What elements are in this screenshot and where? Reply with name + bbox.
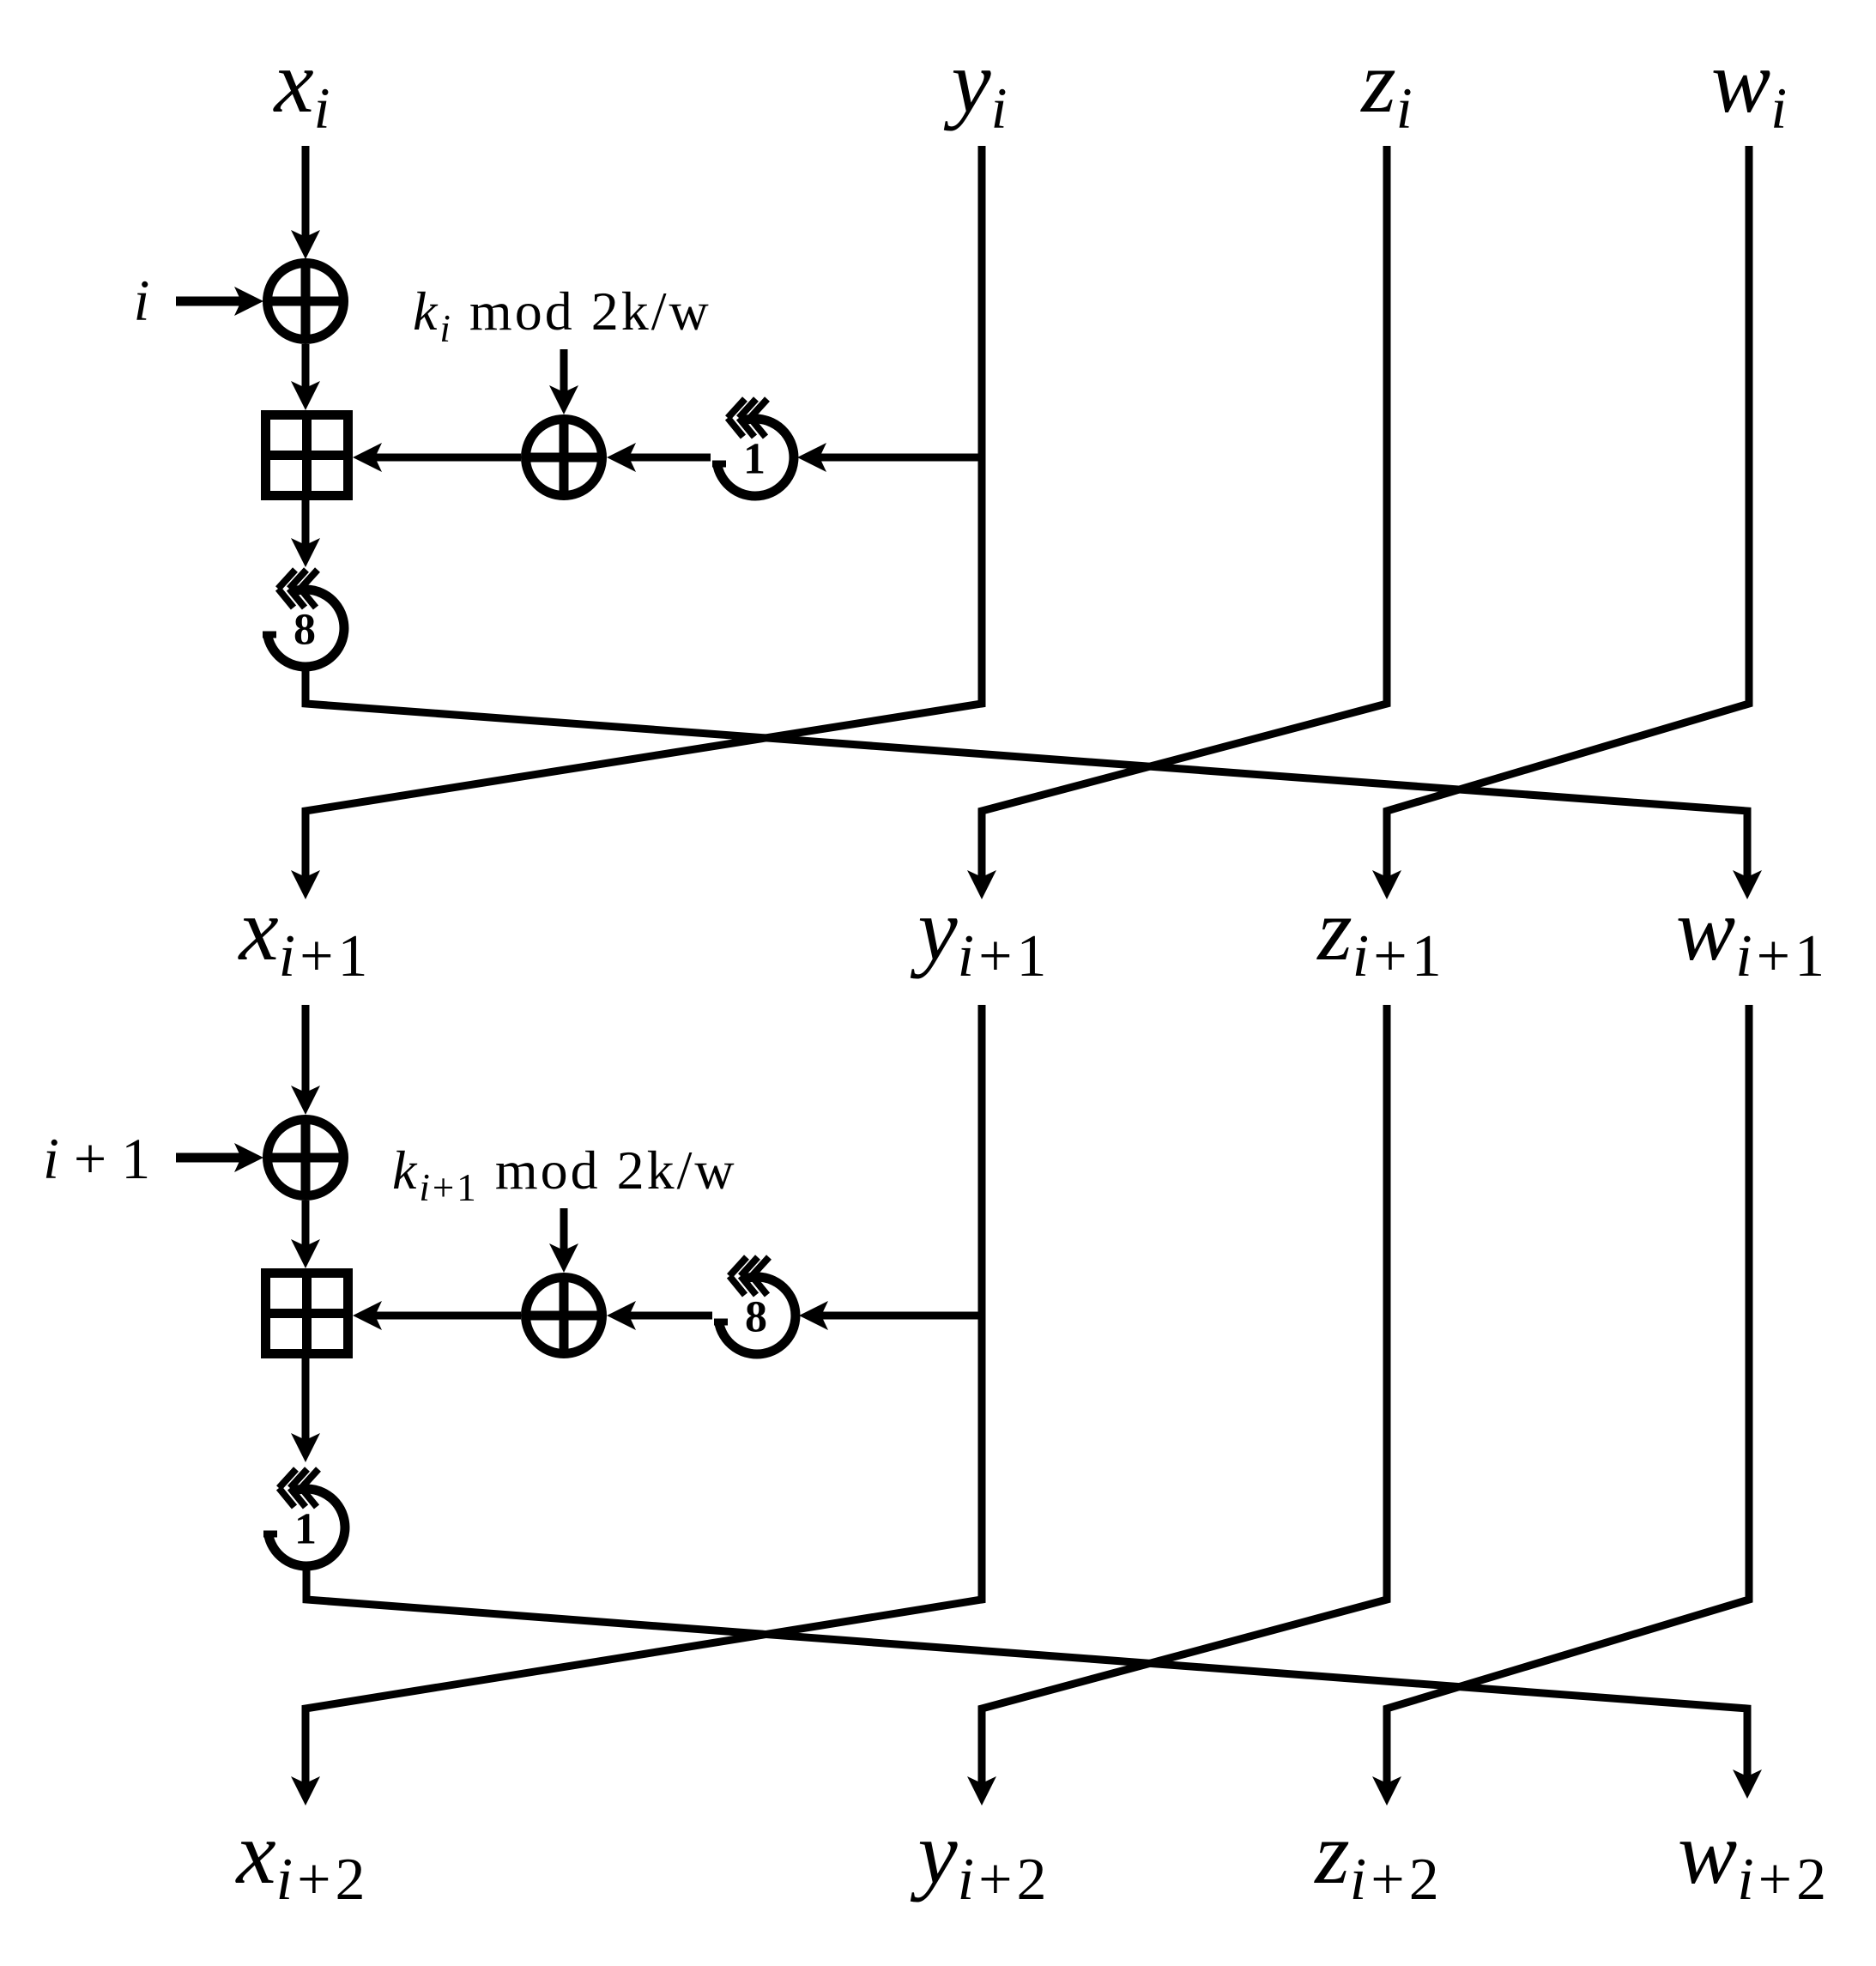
xor U2 xyxy=(523,416,605,499)
modular adder A1 xyxy=(261,410,353,500)
xor U4 xyxy=(523,1274,605,1357)
wire XOR U3 to adder A2 xyxy=(291,1201,320,1268)
svg-text:ki mod 2k/w: ki mod 2k/w xyxy=(413,281,711,350)
wire y_i to rotate R1 xyxy=(797,443,982,472)
wire rotate R3 to XOR U4 xyxy=(607,1301,712,1330)
wire x_i+1 to XOR U3 xyxy=(291,1005,320,1115)
xor U3 xyxy=(264,1116,347,1199)
wire y_i+1 cross to x_i+2 xyxy=(291,1005,982,1806)
rotate-left R1 amount 1 xyxy=(712,399,794,496)
wire x_i to XOR U1 xyxy=(291,146,320,259)
wire z_i cross to y_i+1 xyxy=(967,146,1387,899)
wire x output cross to w_i+2 xyxy=(306,1570,1762,1799)
wire y_i cross to x_i+1 xyxy=(291,146,982,899)
wire z_i+1 cross to y_i+2 xyxy=(967,1005,1387,1806)
svg-text:i: i xyxy=(134,268,150,333)
svg-text:i + 1: i + 1 xyxy=(43,1126,150,1191)
wire XOR U2 to adder A1 xyxy=(353,443,521,472)
rotate-left R2 amount 8 xyxy=(263,570,344,667)
wire x output cross to w_i+1 xyxy=(306,671,1762,899)
svg-text:8: 8 xyxy=(745,1293,767,1342)
wire w_i cross to z_i+1 xyxy=(1372,146,1749,899)
wire XOR U4 to adder A2 xyxy=(353,1301,521,1330)
wire XOR U1 to adder A1 xyxy=(291,344,320,410)
wire key k_i to XOR U2 xyxy=(549,349,578,414)
wire y_i+1 to rotate R3 xyxy=(799,1301,982,1330)
xor U1 xyxy=(264,260,347,342)
svg-text:1: 1 xyxy=(294,1505,317,1554)
wire i+1 to XOR U3 xyxy=(176,1143,263,1172)
modular adder A2 xyxy=(261,1268,353,1358)
rotate-left R4 amount 1 xyxy=(263,1469,345,1566)
wire i to XOR U1 xyxy=(176,287,263,316)
wire adder A1 to rotate R2 xyxy=(291,500,320,567)
svg-text:8: 8 xyxy=(294,606,316,655)
wire adder A2 to rotate R4 xyxy=(291,1358,320,1462)
wire key k_i+1 to XOR U4 xyxy=(549,1208,578,1273)
rotate-left R3 amount 8 xyxy=(714,1257,796,1354)
wire rotate R1 to XOR U2 xyxy=(607,443,711,472)
svg-text:1: 1 xyxy=(743,435,766,484)
wire w_i+1 cross to z_i+2 xyxy=(1372,1005,1749,1806)
